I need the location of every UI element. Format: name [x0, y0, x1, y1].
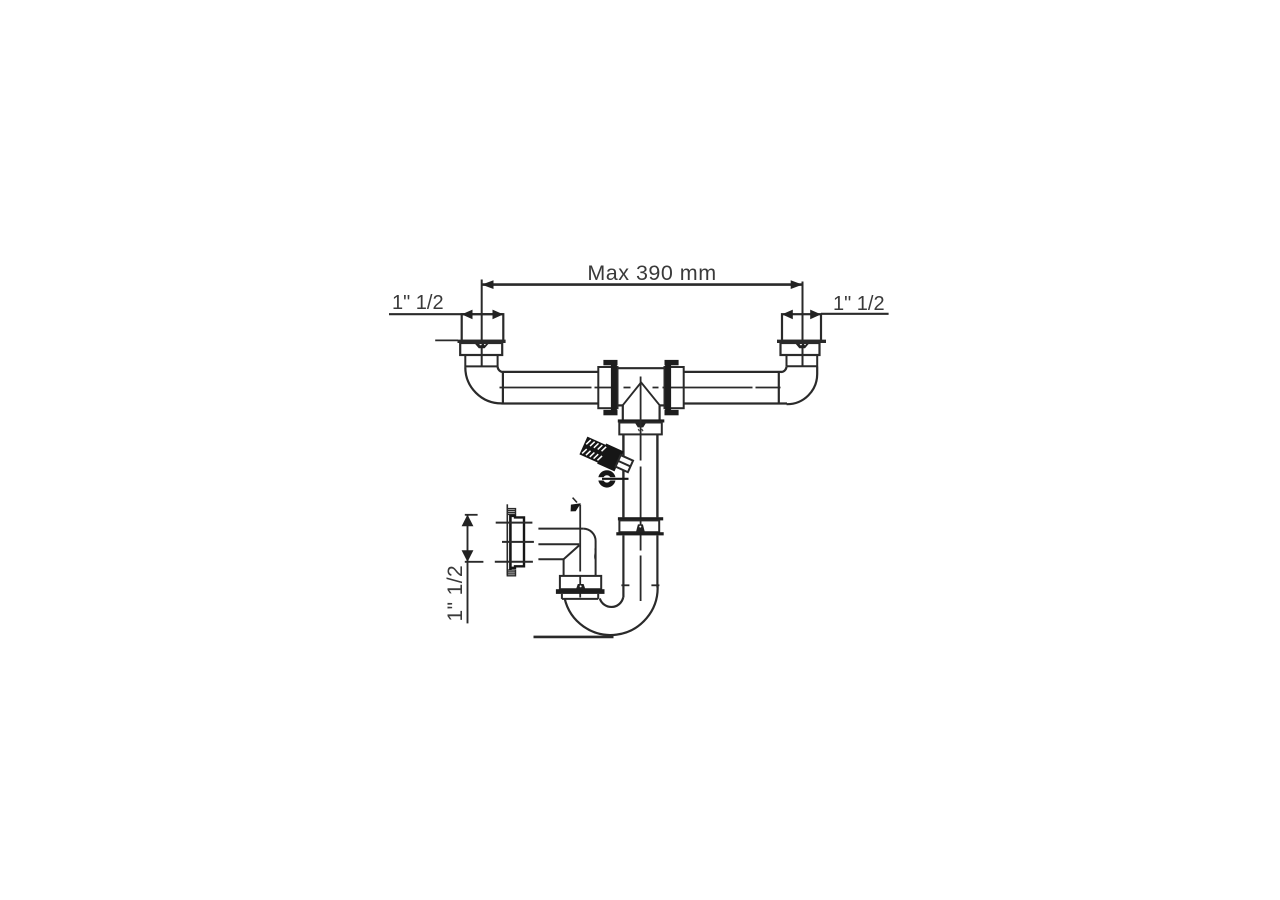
- horizontal pipe centerline: [500, 387, 784, 389]
- horizontal pipe top lines: [503, 371, 781, 373]
- branch nut detent: [635, 423, 647, 428]
- inlet flow arrow: [571, 498, 581, 512]
- svg-text:Max 390 mm: Max 390 mm: [587, 261, 716, 285]
- height dimension line: [467, 515, 469, 624]
- height dimension tick top: [465, 514, 478, 516]
- horizontal pipe bottom lines: [502, 402, 788, 404]
- branch nut flange: [618, 419, 665, 422]
- trap outer bend: [565, 586, 658, 635]
- svg-text:1" 1/2: 1" 1/2: [392, 292, 444, 314]
- pipe step ticks: [621, 584, 659, 586]
- label leader line left: [389, 313, 503, 315]
- flange detail plate: [509, 515, 512, 570]
- svg-text:1" 1/2: 1" 1/2: [444, 565, 467, 622]
- trap outlet line: [534, 636, 614, 639]
- right tailpiece detent: [795, 343, 810, 348]
- dimension arrow left (Max 390): [482, 280, 494, 289]
- dimension line Max 390: [482, 283, 803, 286]
- flange detail vertical line: [506, 504, 508, 575]
- dimension arrow right (Max 390): [791, 280, 803, 289]
- rotated label 1" 1/2: [444, 565, 467, 622]
- inlet leader line 1 and top edge: [538, 529, 595, 541]
- inlet nut body: [560, 576, 601, 589]
- right elbow: [779, 366, 817, 404]
- flange detail body: [511, 516, 524, 568]
- flange detail bottom threads: [507, 570, 515, 576]
- vertical pipe centerline: [640, 377, 642, 602]
- left elbow: [465, 366, 503, 403]
- left tailpiece nut: [462, 314, 504, 341]
- height dimension arrow up: [462, 515, 474, 527]
- tee branch sides: [623, 405, 660, 419]
- left tailpiece neck: [465, 355, 498, 367]
- branch nut body: [619, 423, 662, 435]
- inlet chamfer: [564, 545, 580, 559]
- branch nut mark: [638, 429, 643, 431]
- label leader line right: [821, 313, 889, 315]
- tee body: [618, 368, 665, 405]
- left tailpiece nut width arrows: [462, 310, 504, 320]
- right tailpiece flange line: [777, 340, 826, 343]
- dishwasher connector: [579, 435, 635, 476]
- dimension text Max 390 mm: [587, 261, 716, 285]
- trap inner bend: [600, 597, 623, 607]
- tee right coupling washer bar: [665, 360, 679, 415]
- left tailpiece flange line: [435, 339, 505, 343]
- left tailpiece detent: [474, 343, 489, 348]
- tee left coupling washer bar: [603, 360, 617, 415]
- svg-text:1" 1/2: 1" 1/2: [833, 293, 885, 315]
- flange detail tick bottom: [495, 561, 533, 563]
- flange detail tick middle: [502, 541, 534, 543]
- label 1" 1/2 left: [392, 292, 444, 314]
- height dimension arrow down: [462, 550, 474, 562]
- left tailpiece lower body: [460, 343, 502, 355]
- extension line right: [802, 282, 804, 367]
- right tailpiece nut width arrows: [782, 310, 821, 320]
- extension line left: [481, 280, 483, 367]
- inlet left edge: [563, 559, 565, 576]
- label 1" 1/2 right: [833, 293, 885, 315]
- pipe below lower nut: [623, 535, 657, 597]
- dishwasher cap ring: [597, 473, 629, 485]
- flange detail top threads: [507, 509, 515, 515]
- inlet nut flange band: [556, 589, 605, 594]
- inlet lower cylinder: [562, 594, 598, 599]
- inlet right edge: [594, 541, 597, 576]
- inlet leader line 2: [538, 543, 579, 545]
- tee chevron: [623, 382, 660, 405]
- inlet leader line 3: [538, 558, 564, 560]
- right tailpiece nut: [782, 314, 821, 341]
- lower nut body: [619, 520, 659, 532]
- right tailpiece neck: [787, 355, 819, 366]
- lower nut flange top: [618, 517, 663, 520]
- tee right coupling nut: [665, 367, 684, 408]
- lower nut flange bottom: [616, 532, 663, 535]
- inlet centerline: [579, 505, 581, 598]
- right tailpiece lower body: [781, 343, 820, 355]
- tee left coupling nut: [598, 367, 617, 408]
- flange detail tick top: [496, 522, 533, 524]
- inlet nut detent: [576, 584, 585, 589]
- height dimension tick bottom: [465, 561, 484, 563]
- lower nut detent: [636, 524, 645, 532]
- vertical pipe: [623, 434, 657, 517]
